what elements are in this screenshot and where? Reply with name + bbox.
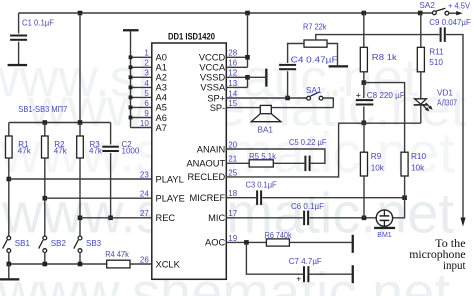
- svg-text:5: 5: [144, 89, 149, 98]
- svg-text:6: 6: [144, 99, 149, 108]
- label VD1 type: [437, 99, 457, 108]
- wire address pin 9 stub: [131, 117, 152, 119]
- capacitor C6: [303, 211, 309, 226]
- pin name A4: [156, 93, 167, 103]
- svg-text:1: 1: [144, 49, 149, 58]
- wire R8 top lead: [363, 13, 365, 47]
- node junction SB3 bottom: [78, 262, 83, 267]
- resistor R6: [266, 239, 289, 246]
- switch SB1 top contact: [7, 236, 11, 240]
- svg-text:C6 0.1µF: C6 0.1µF: [291, 202, 324, 211]
- wire R8 to R10 column: [364, 83, 405, 153]
- pin name AOC: [205, 238, 225, 248]
- svg-text:PLAYE: PLAYE: [156, 194, 185, 204]
- svg-text:SB3: SB3: [86, 239, 102, 248]
- wire R9 bottom lead: [363, 176, 365, 218]
- svg-text:R7 22k: R7 22k: [303, 22, 327, 31]
- wire SP- line: [226, 107, 260, 109]
- pin number 19: [228, 234, 237, 243]
- label R1 name: [18, 140, 29, 149]
- label R9 value: [371, 164, 385, 173]
- label BM1: [377, 232, 392, 239]
- svg-text:SB1: SB1: [15, 239, 31, 248]
- label C5 value: [289, 138, 327, 147]
- label R6 value: [265, 231, 293, 240]
- wire ANAOUT to R5: [226, 162, 249, 164]
- pin number 18: [228, 189, 237, 198]
- ground below R7: [329, 65, 349, 67]
- arrowhead to microphone input: [460, 218, 465, 227]
- wire C7 to ground: [310, 273, 352, 275]
- pin name MIC: [208, 213, 225, 223]
- switch SA1 lever: [310, 92, 319, 96]
- node junction SB1 bottom: [7, 262, 12, 267]
- wire R7 tap: [316, 35, 440, 40]
- svg-text:VSSD: VSSD: [200, 73, 226, 83]
- label SB2: [51, 239, 67, 248]
- pin number 15: [228, 99, 237, 108]
- wire VSS to ground: [248, 76, 266, 78]
- pin number 14: [228, 89, 237, 98]
- switch SA2 lever: [436, 8, 445, 11]
- pin number 17: [228, 209, 237, 218]
- capacitor C5: [304, 156, 310, 172]
- ground after C7: [352, 265, 354, 283]
- resistor R5: [249, 160, 273, 167]
- pin number 28: [228, 49, 237, 58]
- switch SA2 right contact: [445, 11, 449, 15]
- node junction VCC branch on top rail: [245, 11, 250, 16]
- label C2 name: [122, 140, 133, 149]
- wire C8 top lead: [363, 83, 365, 98]
- svg-text:10k: 10k: [371, 164, 385, 173]
- svg-text:input: input: [443, 258, 466, 272]
- svg-text:14: 14: [228, 89, 237, 98]
- label R11 name: [429, 48, 444, 57]
- svg-text:A7: A7: [156, 123, 167, 133]
- svg-text:16: 16: [228, 59, 237, 68]
- resistor R4: [107, 260, 130, 268]
- label SA1: [306, 86, 322, 95]
- svg-text:27: 27: [140, 209, 149, 218]
- capacitor C2: [102, 146, 119, 152]
- wire SP- line right: [271, 107, 333, 109]
- svg-text:BA1: BA1: [258, 126, 274, 135]
- microphone BM1 inner stub: [383, 210, 385, 226]
- wire VSSD stub: [226, 76, 247, 78]
- pin name ANAOUT: [186, 159, 225, 169]
- wire SP+ line: [226, 97, 306, 99]
- svg-text:47k: 47k: [89, 147, 103, 156]
- wire R4 to pin 26: [130, 263, 152, 265]
- wire SA1 to SP- drop: [323, 98, 333, 108]
- label SB3: [86, 239, 102, 248]
- svg-text:26: 26: [140, 255, 149, 264]
- svg-text:RECLED: RECLED: [187, 172, 225, 182]
- capacitor C9: [440, 27, 446, 42]
- wire R6 to ground: [289, 241, 351, 243]
- wire VCC vertical: [247, 13, 249, 67]
- arrowhead +4.5V: [456, 11, 463, 15]
- ground microphone case: [374, 227, 395, 229]
- wire address pin 3 stub: [131, 76, 152, 78]
- svg-text:25: 25: [228, 168, 237, 177]
- node junction A1 bus: [129, 65, 133, 69]
- node junction AOC branch: [244, 240, 249, 245]
- svg-text:C7 4.7µF: C7 4.7µF: [289, 257, 322, 266]
- svg-text:19: 19: [228, 234, 237, 243]
- pin number 4: [144, 79, 149, 88]
- resistor R10: [401, 152, 408, 176]
- label R4 value: [105, 250, 129, 259]
- wire address pin 10 stub: [131, 127, 152, 129]
- node junction C1 branch on top rail: [78, 11, 83, 16]
- wire AOC down to C7: [246, 242, 303, 274]
- svg-text:ANAIN: ANAIN: [197, 144, 225, 154]
- speaker BA1 box: [260, 105, 271, 113]
- wire +V top rail: [19, 12, 433, 14]
- resistor R3: [77, 136, 84, 158]
- ground VSS bar: [265, 69, 267, 87]
- svg-text:2: 2: [144, 59, 149, 68]
- svg-text:R10: R10: [411, 152, 426, 161]
- svg-text:24: 24: [140, 190, 149, 199]
- wire R11 top lead: [420, 13, 422, 47]
- label R3 value: [89, 147, 103, 156]
- pin name SP+: [207, 93, 225, 103]
- pin number 23: [140, 170, 149, 179]
- pin number 26: [140, 255, 149, 264]
- label R5 value: [249, 152, 277, 161]
- wire C8 bottom lead: [363, 106, 365, 122]
- wire resistor top rail: [9, 122, 111, 124]
- svg-text:R9: R9: [371, 152, 382, 161]
- node junction VSSD: [245, 75, 250, 80]
- svg-text:C5 0.22 µF: C5 0.22 µF: [289, 138, 327, 147]
- pin name A2: [156, 73, 167, 83]
- wire R2 top lead: [44, 123, 46, 137]
- label +4.5V: [448, 2, 470, 11]
- node junction R2 top: [43, 120, 48, 125]
- wire C2 top lead: [110, 123, 112, 145]
- watermark row bottom edge: [0, 261, 450, 296]
- pin name XCLK: [156, 259, 181, 269]
- svg-text:510: 510: [429, 58, 443, 67]
- wire ground stub bottom left: [8, 264, 10, 278]
- wire R1 top lead: [8, 123, 10, 137]
- node junction A4 bus: [129, 96, 133, 100]
- pin number 2: [144, 59, 149, 68]
- LED VD1 emission arrow 2: [426, 103, 433, 110]
- svg-text:DD1 ISD1420: DD1 ISD1420: [168, 32, 215, 43]
- svg-text:+ 4.5V: + 4.5V: [448, 2, 470, 11]
- node junction A5 bus: [129, 106, 133, 110]
- pin number 20: [228, 140, 237, 149]
- svg-text:20: 20: [228, 140, 237, 149]
- node junction MICREF R10: [402, 195, 407, 200]
- wire +V drop to resistor rail: [79, 13, 81, 123]
- wire bottom common rail: [9, 263, 107, 265]
- pin number 16: [228, 59, 237, 68]
- svg-text:C1 0.1µF: C1 0.1µF: [22, 18, 54, 27]
- wire R8 bottom lead: [363, 72, 365, 83]
- microphone BM1 electret plates: [380, 216, 390, 221]
- node junction C8 bottom: [362, 121, 367, 126]
- switch SB1 lever: [3, 240, 8, 249]
- svg-text:BM1: BM1: [377, 232, 392, 239]
- svg-text:VSSA: VSSA: [200, 83, 226, 93]
- capacitor C1: [10, 35, 27, 41]
- wire C2 bottom lead: [110, 153, 112, 218]
- svg-text:C4 0.47µF: C4 0.47µF: [291, 56, 338, 65]
- pin number 13: [228, 79, 237, 88]
- wire RECLED line: [226, 123, 420, 177]
- label R10 value: [411, 164, 425, 173]
- pin name VSSA: [200, 83, 226, 93]
- LED VD1 triangle: [415, 99, 427, 104]
- node junction MIC R9: [362, 216, 367, 221]
- pin number 25: [228, 168, 237, 177]
- node junction R8 branch on top rail: [362, 11, 367, 16]
- switch SB2 top contact: [43, 236, 47, 240]
- svg-text:SA2: SA2: [419, 1, 435, 10]
- wire R5 to C5: [273, 162, 304, 164]
- node junction R11 branch on top rail: [418, 11, 423, 16]
- pin number 27: [140, 209, 149, 218]
- node junction SB2 bottom: [43, 262, 48, 267]
- svg-text:VCCD: VCCD: [199, 53, 226, 63]
- svg-text:SA1: SA1: [306, 86, 322, 95]
- svg-text:1000: 1000: [122, 147, 140, 156]
- resistor R8: [360, 47, 367, 72]
- pin number 10: [140, 119, 149, 128]
- wire C4 bottom lead: [287, 71, 289, 98]
- wire VSSA stub: [226, 86, 247, 88]
- svg-text:R6 740k: R6 740k: [265, 231, 293, 240]
- pin number 24: [140, 190, 149, 199]
- watermark row top-right: [27, 79, 466, 138]
- wire PLAYL to pin 23: [9, 178, 152, 180]
- pin name PLAYE: [156, 194, 185, 204]
- resistor R9: [360, 152, 367, 176]
- wire address pin 6 stub: [131, 106, 152, 108]
- switch SB3 top contact: [78, 236, 82, 240]
- wire VCCA stub: [226, 66, 247, 68]
- switch SA1 left contact: [307, 96, 311, 100]
- node junction A3 bus: [129, 86, 133, 90]
- wire R3 top lead: [79, 123, 81, 137]
- label R10 name: [411, 152, 426, 161]
- svg-text:28: 28: [228, 49, 237, 58]
- capacitor C7 plus sign: [296, 274, 301, 284]
- wire C1 bottom lead: [18, 42, 20, 64]
- node junction PLAYL tap: [7, 177, 12, 182]
- svg-text:13: 13: [228, 79, 237, 88]
- pin name REC: [156, 213, 176, 223]
- wire C6 to mic: [309, 217, 376, 219]
- microphone BM1 body: [376, 210, 392, 226]
- svg-text:4: 4: [144, 79, 149, 88]
- svg-text:C3 0.1µF: C3 0.1µF: [246, 181, 277, 190]
- wire C3 to mic: [262, 197, 404, 199]
- wire SB1 bottom lead: [8, 253, 10, 265]
- switch SB2 lever: [39, 240, 44, 249]
- watermark row top-left: [0, 49, 418, 108]
- svg-text:R11: R11: [429, 48, 444, 57]
- node junction PLAYE tap: [43, 196, 48, 201]
- wire PLAYE to pin 24: [45, 197, 152, 199]
- label SB1-SB3 type: [18, 104, 67, 114]
- watermark row middle: [1, 182, 454, 246]
- label C6 value: [291, 202, 324, 211]
- wire address pin 5 stub: [131, 96, 152, 98]
- svg-text:R8 1k: R8 1k: [372, 53, 398, 62]
- resistor R11: [417, 47, 424, 72]
- node junction R3 top: [78, 120, 83, 125]
- node junction A2 bus: [129, 75, 133, 79]
- svg-text:18: 18: [228, 189, 237, 198]
- svg-text:17: 17: [228, 209, 237, 218]
- svg-text:АЛ307: АЛ307: [437, 99, 457, 108]
- wire C9 to output arrow: [446, 35, 463, 218]
- svg-text:AOC: AOC: [205, 238, 225, 248]
- svg-text:9: 9: [144, 109, 149, 118]
- wire ANAIN line: [226, 149, 325, 163]
- pin number 21: [228, 155, 237, 164]
- node junction VCCD: [245, 55, 250, 60]
- pin name A7: [156, 123, 167, 133]
- resistor R1: [6, 136, 13, 158]
- pin number 9: [144, 109, 149, 118]
- label R7 value: [303, 22, 327, 31]
- svg-text:12: 12: [228, 69, 237, 78]
- capacitor C3: [256, 190, 262, 205]
- note to the microphone input: [409, 236, 466, 272]
- label C7 value: [289, 257, 322, 266]
- label C8 value: [367, 91, 405, 100]
- switch SA2 left contact: [433, 11, 437, 15]
- svg-text:MICREF: MICREF: [190, 193, 226, 203]
- svg-text:SP-: SP-: [210, 103, 226, 113]
- svg-text:ANAOUT: ANAOUT: [186, 159, 225, 169]
- pin name MICREF: [190, 193, 226, 203]
- svg-text:MIC: MIC: [208, 213, 225, 223]
- pin name A5: [156, 103, 167, 113]
- pin name A6: [156, 113, 167, 123]
- pin name VCCD: [199, 53, 226, 63]
- svg-text:REC: REC: [156, 213, 176, 223]
- capacitor C4: [279, 64, 296, 70]
- label SB1: [15, 239, 31, 248]
- label C3 value: [246, 181, 277, 190]
- wire address pin 4 stub: [131, 86, 152, 88]
- wire R3 bottom lead: [79, 158, 81, 236]
- label R2 value: [54, 147, 68, 156]
- svg-text:A5: A5: [156, 103, 167, 113]
- resistor R7: [304, 40, 327, 47]
- svg-text:15: 15: [228, 99, 237, 108]
- wire MICREF to C3: [226, 197, 256, 199]
- wire address pin 2 stub: [131, 66, 152, 68]
- ground below C1: [8, 64, 28, 66]
- label BA1: [258, 126, 274, 135]
- svg-text:47k: 47k: [54, 147, 68, 156]
- svg-text:A1: A1: [156, 63, 167, 73]
- pin name RECLED: [187, 172, 225, 182]
- svg-text:A0: A0: [156, 53, 167, 63]
- label C4 value: [291, 56, 338, 65]
- label R1 value: [18, 147, 32, 156]
- capacitor C7: [303, 266, 309, 282]
- svg-text:10k: 10k: [411, 164, 425, 173]
- pin name A1: [156, 63, 167, 73]
- pin number 12: [228, 69, 237, 78]
- op-amp U1 IC DD1 ISD1420 body: [152, 43, 227, 279]
- label R8 value: [372, 53, 398, 62]
- wire R11 to LED: [420, 72, 422, 99]
- label SA2: [419, 1, 435, 10]
- svg-text:21: 21: [228, 155, 237, 164]
- node junction REC tap: [78, 216, 83, 221]
- pin name A3: [156, 83, 167, 93]
- label DD1 ISD1420 title: [168, 32, 215, 43]
- svg-text:R4 47k: R4 47k: [105, 250, 129, 259]
- label R9 name: [371, 152, 382, 161]
- svg-text:R5 5.1k: R5 5.1k: [249, 152, 277, 161]
- label R3 name: [90, 140, 101, 149]
- svg-text:PLAYL: PLAYL: [156, 174, 184, 184]
- svg-text:A2: A2: [156, 73, 167, 83]
- svg-text:A3: A3: [156, 83, 167, 93]
- label C2 value: [122, 147, 140, 156]
- capacitor C8 plus sign: [356, 91, 361, 101]
- svg-text:C8 220 µF: C8 220 µF: [367, 91, 405, 100]
- node junction R8 bottom: [362, 80, 367, 85]
- switch SB3 bottom contact: [78, 249, 82, 253]
- svg-text:3: 3: [144, 69, 149, 78]
- watermark row faint upper-middle: [0, 121, 455, 185]
- wire LED cathode lead: [420, 106, 422, 124]
- label C9 value: [429, 18, 471, 27]
- wire MIC to C6: [226, 217, 303, 219]
- label VD1 name: [437, 88, 453, 97]
- wire address bus vertical: [130, 31, 132, 128]
- node junction C2 on REC line: [108, 216, 113, 221]
- wire REC to pin 27: [80, 217, 152, 219]
- switch SB1 bottom contact: [7, 249, 11, 253]
- svg-text:47k: 47k: [18, 147, 32, 156]
- node junction A0 bus: [129, 55, 133, 59]
- pin number 6: [144, 99, 149, 108]
- node junction A6 bus: [129, 116, 133, 120]
- wire VSS vertical: [247, 77, 249, 87]
- ground after R6: [352, 235, 354, 253]
- wire SA2 to supply arrow: [449, 12, 457, 14]
- wire R9 top lead: [363, 123, 365, 152]
- svg-text:+: +: [296, 274, 301, 284]
- svg-text:C9 0.047µF: C9 0.047µF: [429, 18, 471, 27]
- wire VCCD stub: [226, 56, 247, 58]
- label R11 value: [429, 58, 443, 67]
- wire C1 top lead: [18, 13, 20, 34]
- pin number 3: [144, 69, 149, 78]
- wire R7 left lead: [288, 44, 304, 64]
- pin name ANAIN: [197, 144, 225, 154]
- wire SB3 bottom lead: [79, 253, 81, 265]
- wire R2 bottom lead: [44, 158, 46, 236]
- wire AOC line: [226, 241, 266, 243]
- svg-text:A6: A6: [156, 113, 167, 123]
